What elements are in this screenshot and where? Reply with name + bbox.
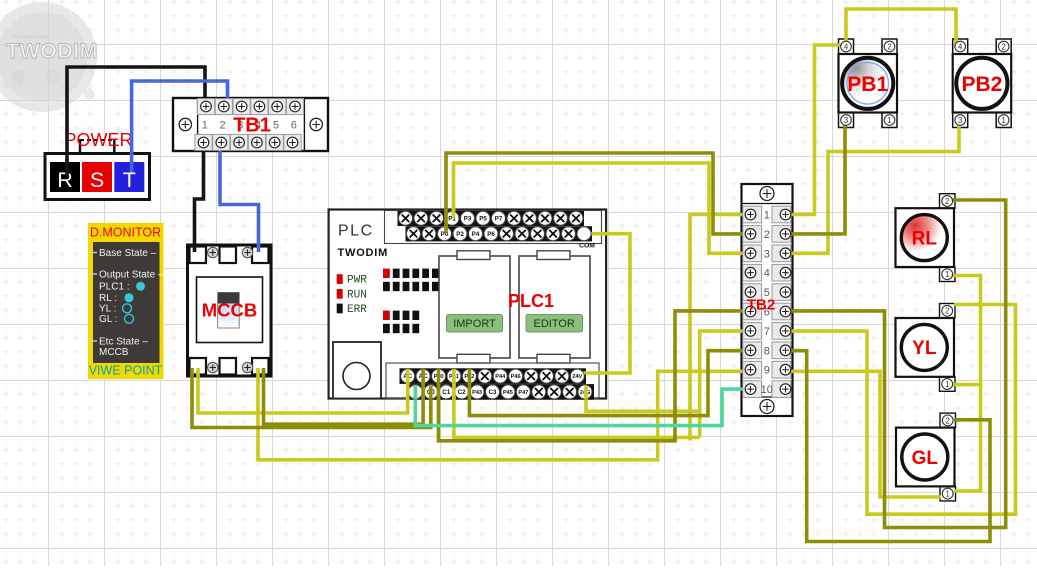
svg-text:D.MONITOR: D.MONITOR: [90, 226, 161, 240]
svg-text:C1: C1: [442, 389, 450, 396]
svg-text:2: 2: [945, 307, 949, 316]
svg-text:TWODIM: TWODIM: [6, 39, 98, 63]
svg-text:COM: COM: [579, 243, 595, 250]
svg-text:1: 1: [946, 490, 950, 499]
svg-text:YL :: YL :: [99, 304, 116, 315]
svg-text:3: 3: [844, 116, 848, 125]
svg-text:PB1: PB1: [847, 73, 888, 96]
svg-text:ERR: ERR: [347, 304, 367, 316]
svg-text:10: 10: [761, 384, 773, 396]
svg-text:Output State –: Output State –: [99, 270, 164, 281]
svg-text:9: 9: [764, 365, 770, 377]
svg-text:Etc State –: Etc State –: [99, 337, 148, 348]
svg-text:2: 2: [764, 229, 770, 241]
svg-text:1: 1: [202, 119, 208, 131]
svg-text:1: 1: [764, 210, 770, 222]
svg-text:2: 2: [946, 416, 950, 425]
svg-text:P3: P3: [464, 215, 472, 222]
svg-text:PWR: PWR: [347, 275, 367, 287]
svg-text:T: T: [123, 168, 136, 192]
svg-text:MCCB: MCCB: [99, 347, 129, 358]
svg-text:7: 7: [764, 326, 770, 338]
svg-text:C3: C3: [489, 389, 497, 396]
svg-text:P6: P6: [487, 231, 495, 238]
svg-text:6: 6: [291, 119, 297, 131]
svg-text:P5: P5: [479, 215, 487, 222]
svg-text:1: 1: [1002, 116, 1006, 125]
svg-text:VIWE POINT: VIWE POINT: [89, 364, 163, 378]
svg-text:P43: P43: [472, 390, 482, 396]
svg-text:Base State –: Base State –: [99, 248, 157, 259]
svg-text:P2: P2: [456, 231, 464, 238]
svg-text:S: S: [90, 168, 104, 192]
svg-text:P46: P46: [511, 374, 521, 380]
svg-text:RL: RL: [912, 228, 938, 249]
svg-text:P7: P7: [495, 215, 503, 222]
svg-text:4: 4: [844, 42, 849, 51]
svg-text:4: 4: [958, 42, 963, 51]
svg-text:P44: P44: [495, 374, 506, 380]
svg-text:4: 4: [764, 268, 770, 280]
svg-text:2: 2: [219, 119, 225, 131]
svg-text:P47: P47: [518, 390, 528, 396]
svg-text:PB2: PB2: [961, 73, 1002, 96]
svg-text:8: 8: [764, 345, 770, 357]
svg-text:2: 2: [887, 42, 891, 51]
svg-text:IMPORT: IMPORT: [453, 318, 496, 330]
svg-text:1: 1: [945, 380, 949, 389]
svg-text:POWER: POWER: [64, 130, 132, 150]
svg-text:3: 3: [764, 248, 770, 260]
svg-text:C2: C2: [458, 389, 466, 396]
svg-text:PLC1: PLC1: [508, 291, 554, 311]
svg-text:2: 2: [945, 197, 949, 206]
svg-text:RUN: RUN: [347, 289, 367, 301]
svg-text:MCCB: MCCB: [202, 300, 258, 321]
svg-text:1: 1: [887, 116, 891, 125]
svg-text:5: 5: [273, 119, 279, 131]
svg-text:YL: YL: [912, 338, 937, 359]
svg-text:2: 2: [1002, 42, 1006, 51]
svg-text:PLC1 :: PLC1 :: [99, 282, 130, 293]
svg-text:EDITOR: EDITOR: [534, 318, 575, 330]
svg-text:GL: GL: [912, 448, 939, 469]
svg-text:RL :: RL :: [99, 293, 117, 304]
svg-text:TWODIM: TWODIM: [338, 247, 389, 259]
svg-text:3: 3: [958, 116, 962, 125]
svg-text:P45: P45: [503, 390, 513, 396]
svg-text:24V: 24V: [572, 374, 582, 380]
svg-text:1: 1: [945, 270, 949, 279]
svg-text:TB1: TB1: [233, 115, 271, 137]
svg-text:R: R: [57, 168, 73, 192]
svg-text:TB2: TB2: [747, 297, 775, 314]
svg-text:PLC: PLC: [338, 223, 374, 240]
svg-text:P4: P4: [472, 231, 480, 238]
svg-text:GL :: GL :: [99, 314, 118, 325]
